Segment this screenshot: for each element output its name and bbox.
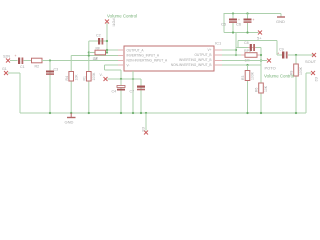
svg-text:G1: G1 (2, 67, 7, 71)
net flag SIN input (3, 55, 10, 63)
svg-text:C7: C7 (130, 90, 135, 94)
capacitor C8 (244, 41, 256, 51)
resistor R5 vertical (241, 65, 255, 113)
wire inverting input A row (71, 55, 118, 57)
node bus C4 (120, 112, 122, 114)
wire left drop of rail (223, 13, 225, 33)
svg-text:V-: V- (100, 73, 103, 77)
svg-text:V+: V+ (208, 48, 212, 52)
node C5 bottom (232, 31, 234, 33)
capacitor C1 (15, 54, 25, 69)
wire OUTPUT_A row (107, 49, 118, 51)
svg-text:C5: C5 (221, 22, 227, 27)
svg-text:V-: V- (127, 64, 130, 68)
wire right vertical of network (260, 48, 262, 114)
svg-text:100K: 100K (299, 66, 303, 75)
svg-text:R3: R3 (241, 76, 245, 80)
node bus R5 (246, 112, 248, 114)
svg-text:POTO: POTO (265, 66, 276, 71)
svg-text:S2N: S2N (3, 55, 10, 59)
svg-text:R1: R1 (83, 76, 87, 80)
resistor R4 vertical (65, 56, 79, 114)
capacitor C2 (96, 34, 103, 45)
svg-text:G2: G2 (314, 77, 318, 82)
resistor R1 vertical with feedback leg (83, 41, 98, 113)
wire OUTPUT_B pin (222, 54, 236, 56)
wire C1 to R2 (24, 60, 32, 62)
capacitor C5 (221, 14, 240, 33)
net flag G1 (2, 67, 8, 75)
ground GND below bus (65, 113, 76, 125)
wire bridge to output cap (238, 41, 282, 56)
wire potentiometer vertical (106, 23, 108, 53)
capacitor C9 (277, 48, 288, 59)
svg-text:Volume Control: Volume Control (107, 14, 137, 19)
wire V- route (105, 65, 122, 79)
node network right top (260, 54, 262, 56)
node bus R1 (88, 112, 90, 114)
capacitor C3 (46, 61, 58, 114)
wire bus to AGND flag (145, 113, 147, 131)
node V- C4 (120, 78, 122, 80)
svg-text:C6: C6 (236, 22, 242, 27)
node feedback-INV_A (88, 54, 90, 56)
resistor RF feedback (89, 47, 107, 61)
resistor RP1 (236, 49, 261, 63)
svg-text:IC1: IC1 (215, 41, 222, 46)
svg-text:C8: C8 (244, 41, 249, 45)
svg-text:10K: 10K (264, 85, 268, 92)
node C2-pot (106, 40, 108, 42)
svg-text:C9: C9 (279, 48, 284, 52)
node V+ pin tee (235, 49, 237, 51)
resistor R2 (32, 58, 43, 68)
svg-text:R4: R4 (65, 76, 69, 80)
wire C2 row (89, 40, 107, 42)
wire input to C1 (10, 60, 18, 62)
capacitor C7 (130, 79, 146, 113)
op-amp IC1 (124, 41, 222, 72)
pin stubs IC1 left (118, 50, 124, 65)
svg-text:C2: C2 (96, 34, 101, 38)
svg-text:C4: C4 (112, 90, 117, 94)
net flag V- (100, 73, 108, 81)
wire V- row (108, 78, 142, 80)
svg-text:NON-INVERTING_INPUT_B: NON-INVERTING_INPUT_B (171, 63, 212, 67)
net flag POT0 (265, 59, 276, 71)
svg-text:RF: RF (96, 47, 101, 51)
node bus C3 (49, 112, 51, 114)
wire INVERTING_INPUT_B row (222, 60, 267, 62)
svg-text:R2: R2 (35, 65, 40, 69)
svg-text:C1: C1 (20, 65, 25, 69)
wire V+ pin (222, 49, 236, 51)
node bus C7 (140, 112, 142, 114)
svg-text:C3: C3 (54, 68, 59, 72)
svg-text:5+: 5+ (257, 36, 262, 41)
svg-text:100K: 100K (251, 71, 255, 80)
node rail-C6 (246, 12, 248, 14)
svg-text:RP1: RP1 (244, 49, 251, 53)
svg-text:SOUT: SOUT (305, 59, 317, 64)
node bus R8 (295, 112, 297, 114)
pin stubs IC1 right (214, 50, 222, 65)
net flag 5+ (257, 31, 262, 41)
svg-text:+: + (253, 18, 255, 22)
node OUT_A-pot (106, 49, 108, 51)
net flag POTI volume (105, 19, 116, 27)
svg-text:100K: 100K (92, 72, 96, 81)
svg-text:GND: GND (65, 120, 74, 125)
node rail-C5 (232, 12, 234, 14)
svg-text:1K: 1K (94, 57, 99, 61)
resistor R6 vertical (255, 83, 269, 93)
wire G1 to bus (8, 73, 20, 113)
net flag SOUT (305, 53, 317, 64)
svg-text:POTI: POTI (112, 19, 116, 27)
ground GND top-right (276, 14, 285, 25)
svg-text:OUTPUT_B: OUTPUT_B (194, 53, 211, 57)
node C3 tee (49, 59, 51, 61)
wire G2 to bus (306, 73, 311, 113)
svg-text:NON-INVERTING_INPUT_A: NON-INVERTING_INPUT_A (127, 59, 169, 63)
wire NON-INVERTING_INPUT_B row (222, 64, 261, 66)
svg-text:+: + (15, 54, 17, 58)
node network right bottom (260, 59, 262, 61)
wire V+ row under caps (224, 32, 259, 34)
svg-text:GND: GND (276, 19, 285, 24)
node bus mid (132, 112, 134, 114)
capacitor C4 (112, 79, 126, 113)
node resistor row (235, 54, 237, 56)
node feedback-RF row (88, 51, 90, 53)
svg-text:10K: 10K (75, 74, 79, 81)
svg-text:Volume Control: Volume Control (264, 74, 294, 79)
wire R2 to IC non-inverting input A (42, 60, 118, 62)
resistor R8 vertical (290, 55, 304, 113)
wire V+ drop to pin (235, 33, 237, 56)
net flag AGND (141, 127, 148, 135)
node divider tee (246, 64, 248, 66)
node SOUT tee (295, 54, 297, 56)
net flag G2 (311, 71, 318, 82)
wire IC bottom drop (132, 71, 134, 113)
node V- mid (132, 78, 134, 80)
node RF-pot (106, 51, 108, 53)
svg-text:R6: R6 (255, 88, 259, 92)
capacitor C6 (236, 14, 255, 33)
node C6 bottom (246, 31, 248, 33)
wire C9 to SOUT (288, 54, 313, 56)
wire capacitor row (236, 47, 261, 49)
wire top rail V+ (224, 13, 281, 15)
node bus R4 (70, 112, 72, 114)
wire ground bus (20, 112, 306, 114)
svg-text:OUTPUT_A: OUTPUT_A (127, 49, 145, 53)
svg-text:INVERTING_INPUT_B: INVERTING_INPUT_B (179, 58, 212, 62)
svg-text:INVERTING_INPUT_A: INVERTING_INPUT_A (127, 54, 160, 58)
node bus AGND drop (145, 112, 147, 114)
node bus R6 (260, 112, 262, 114)
svg-text:G3: G3 (141, 127, 145, 132)
